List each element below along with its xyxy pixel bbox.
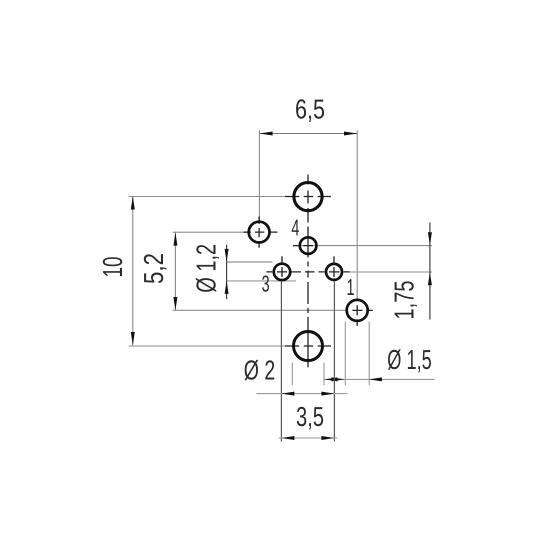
arrow lower diameter 1,2 xyxy=(225,281,229,294)
arrow bottom of dim 5,2 xyxy=(173,297,177,310)
dimension line diameter 2 / diameter 1,5 xyxy=(324,378,434,380)
dimension line 6,5 xyxy=(259,133,357,135)
dimension line 5,2 xyxy=(174,232,176,310)
wire: extension bottom-circle right edge xyxy=(323,363,325,386)
svg-text:1,75: 1,75 xyxy=(388,281,419,320)
arrow left of dim 6,5 xyxy=(259,132,272,136)
hole top (diameter 2) xyxy=(294,183,322,211)
wire: hole1 vertical dark dashes xyxy=(356,305,358,326)
arrow diameter 1,5 right (pointing left) xyxy=(369,377,382,381)
svg-text:1: 1 xyxy=(347,274,355,300)
dimension line 3,5 lower xyxy=(279,437,338,439)
arrow 3,5 upper left xyxy=(281,392,294,396)
wire: leader upper diameter 1,2 xyxy=(227,261,273,263)
svg-text:3,5: 3,5 xyxy=(296,401,324,432)
svg-text:5,2: 5,2 xyxy=(138,253,169,284)
svg-text:Ø 1,2: Ø 1,2 xyxy=(191,244,222,293)
dimension line 1,75 xyxy=(429,223,431,320)
arrow upper diameter 1,2 xyxy=(225,249,229,262)
svg-text:6,5: 6,5 xyxy=(295,94,325,125)
arrow top of dim 10 xyxy=(131,196,135,209)
arrow lower dim 1,75 xyxy=(428,272,432,285)
wire: extension lower of dim 1,75 xyxy=(343,271,432,273)
svg-text:Ø 1,5: Ø 1,5 xyxy=(387,344,432,375)
arrow 3,5 lower left xyxy=(281,436,294,440)
wire: left hole horizontal centerline xyxy=(244,231,278,233)
wire: hole4 horizontal centerline dark stub xyxy=(293,245,313,247)
wire: extension line top of dim 10 xyxy=(129,196,293,198)
arrow 3,5 upper right xyxy=(321,392,334,396)
wire: leader lower diameter 1,2 xyxy=(227,280,296,282)
dimension line diameter 1,2 xyxy=(226,245,228,300)
svg-text:3: 3 xyxy=(262,271,270,297)
wire: top circle horizontal centerline dark dashes xyxy=(285,196,331,198)
arrow 3,5 lower right xyxy=(321,436,334,440)
wire: extension hole1 left edge xyxy=(344,322,346,386)
svg-text:Ø 2: Ø 2 xyxy=(244,354,276,385)
wire: hole1 horizontal dark dashes xyxy=(352,309,372,311)
arrow diameter 1,5 left (pointing right) xyxy=(332,377,345,381)
wire: extension line bottom of dim 5,2 xyxy=(173,309,346,311)
wire: extension line right of dim 6,5 xyxy=(356,130,358,299)
wire: hole3 vertical top stub xyxy=(281,256,283,277)
wire: hole2 vertical top stub xyxy=(333,256,335,277)
hole bottom (diameter 2) xyxy=(294,332,323,361)
wire: extension hole2 centerline down xyxy=(333,282,335,442)
arrow top of dim 5,2 xyxy=(173,232,177,245)
wire: extension upper of dim 1,75 xyxy=(293,245,432,247)
dimension line 3,5 upper xyxy=(256,393,347,395)
hole left (diameter 1,5) xyxy=(249,222,270,243)
wire: extension hole1 right edge xyxy=(368,322,370,386)
hole pin 1 (diameter 1,5) xyxy=(347,300,368,321)
hole pin 3 (diameter 1,2) xyxy=(274,264,290,280)
wire: left hole vertical centerline xyxy=(258,217,260,248)
arrow diameter 2 right (pointing left) xyxy=(324,377,337,381)
hole pin 2 (diameter 1,2) xyxy=(326,264,342,280)
arrow right of dim 6,5 xyxy=(344,132,357,136)
wire: extension line bottom of dim 10 xyxy=(129,345,292,347)
arrow bottom of dim 10 xyxy=(131,332,135,345)
hole pin 4 (diameter 1,2) xyxy=(300,237,317,254)
wire: row3 horizontal centerline dashes xyxy=(266,271,349,273)
svg-text:10: 10 xyxy=(97,257,128,278)
wire: extension hole3 centerline down xyxy=(280,282,282,442)
wire: main vertical centerline axis xyxy=(307,175,309,368)
arrow upper dim 1,75 xyxy=(428,232,432,245)
svg-text:4: 4 xyxy=(291,215,299,241)
wire: bottom circle horizontal centerline dark dashes xyxy=(285,345,331,347)
wire: extension line top of dim 5,2 xyxy=(173,231,248,233)
wire: extension bottom-circle left edge xyxy=(291,363,293,386)
wire: extension line left of dim 6,5 xyxy=(258,130,260,220)
dimension line 10 xyxy=(132,196,134,345)
